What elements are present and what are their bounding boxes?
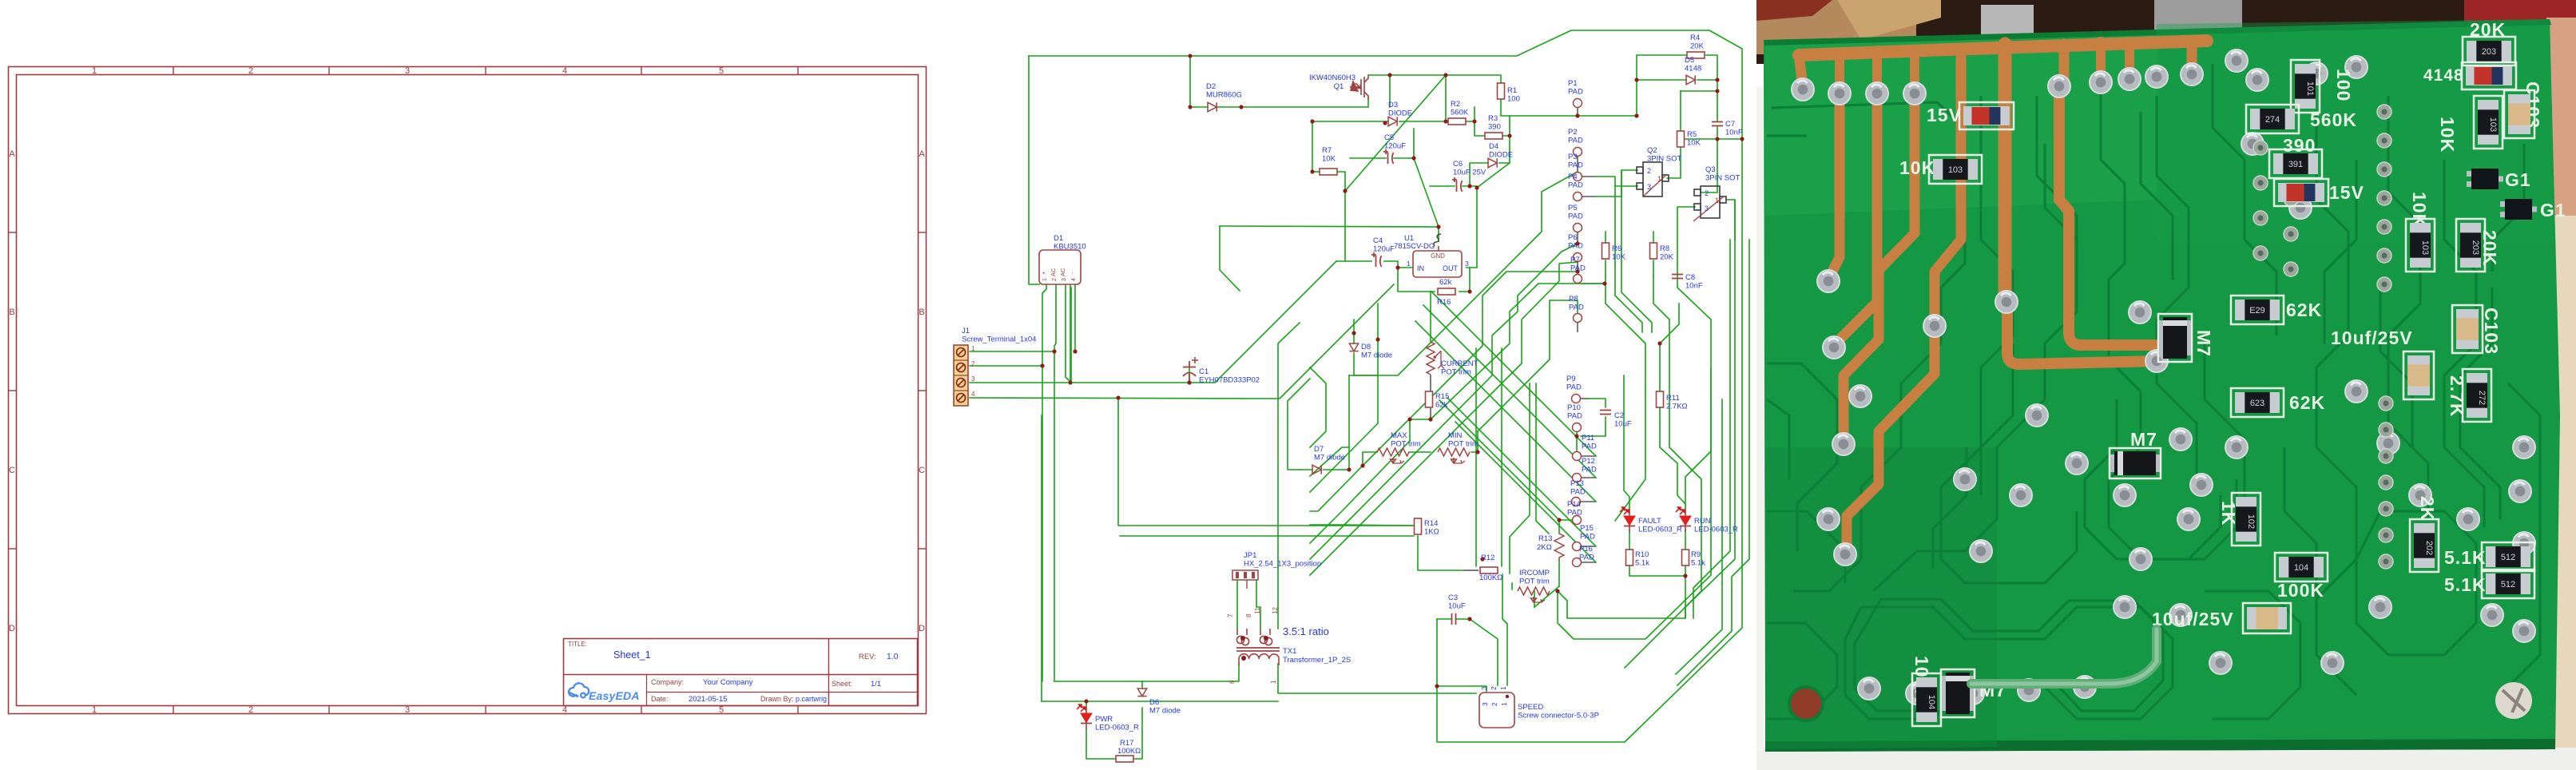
svg-text:D1: D1 [1054,234,1063,243]
wire TX1 sec left [1232,664,1239,681]
svg-text:J1: J1 [962,327,970,335]
pad P2 [1574,148,1582,157]
stub P11 [1581,455,1596,457]
svg-text:MAX: MAX [1391,431,1407,440]
photo background right skin [2546,18,2576,219]
resistor smd 2.7K [2463,369,2491,422]
wire ircomp to R9 R10 rail [1558,576,1685,618]
pad 15 [2225,50,2248,72]
svg-text:560K: 560K [2310,109,2357,130]
svg-text:D6: D6 [1149,698,1159,707]
via col a 3 [2377,162,2391,177]
resistor smd 10K b [2474,96,2503,149]
via col d 3 [2284,227,2298,241]
junction [1507,133,1511,137]
svg-text:P16: P16 [1579,545,1593,554]
transistor Q3 [1694,186,1726,218]
svg-text:4: 4 [1071,278,1077,281]
junction [1387,73,1391,77]
wire C5 right up [1394,129,1414,158]
svg-text:C3: C3 [1448,593,1458,602]
svg-text:SPEED: SPEED [1518,703,1543,712]
resistor R3 [1485,133,1502,139]
etched outline 19 [1981,343,2013,495]
junction [1480,557,1484,561]
svg-text:C: C [919,466,925,475]
svg-text:104: 104 [1927,695,1936,709]
svg-text:C4: C4 [1373,236,1383,245]
svg-text:2: 2 [1490,702,1498,706]
svg-text:PAD: PAD [1568,212,1583,221]
etched outline 27 [2324,160,2356,343]
schematic sheet frame [9,66,927,715]
svg-text:PAD: PAD [1580,533,1595,542]
wire R9 bottom [1685,566,1686,576]
junction [1310,119,1314,123]
svg-text:10uF: 10uF [1614,420,1632,429]
svg-text:623: 623 [2250,399,2264,408]
resistor smd 560K [2246,105,2299,133]
pad 51 [2114,596,2136,618]
etched outline 26 [2141,112,2173,280]
svg-text:4: 4 [971,391,975,398]
svg-text:R15: R15 [1435,392,1449,401]
wire C6 to D4 diagonal [1477,163,1510,188]
pad 23 [1962,682,1984,705]
transistor Q2 [1637,162,1669,196]
svg-text:15V: 15V [2329,182,2364,203]
copper stub 3 [1910,50,1919,89]
svg-text:7: 7 [1227,613,1234,617]
svg-text:C: C [9,466,15,475]
wire mid horizontal left end [1220,226,1240,291]
via col c 3 [2253,211,2268,225]
wire bottom horizontal [1042,701,1278,702]
svg-text:A: A [9,149,15,159]
etched outline 25 [2037,96,2077,272]
etched outline 16 [2508,383,2540,687]
svg-text:Q3: Q3 [1705,165,1716,174]
svg-text:M7 diode: M7 diode [1314,454,1345,462]
svg-text:PAD: PAD [1568,181,1583,190]
svg-text:Q1: Q1 [1334,82,1344,91]
capacitor smd C103 b [2452,305,2483,353]
svg-text:2.7K: 2.7K [2447,375,2467,418]
pad P4 [1574,192,1582,201]
svg-text:512: 512 [2501,580,2515,589]
resistor R15 [1426,391,1433,407]
svg-text:PAD: PAD [1568,242,1583,251]
junction [1443,73,1447,77]
svg-text:OUT: OUT [1443,264,1459,272]
wire filler vertical a [1536,383,1549,534]
capacitor C5 [1383,149,1394,164]
wire bundle a4 P8 loop [1478,300,1578,431]
junction [1555,589,1559,593]
svg-text:120uF: 120uF [1384,142,1406,151]
svg-text:512: 512 [2501,553,2515,562]
pad 20 [1834,543,1856,566]
junction [1557,518,1561,522]
etched outline 24 [2460,288,2500,519]
svg-text:391: 391 [2288,160,2303,169]
svg-text:Transformer_1P_2S: Transformer_1P_2S [1283,656,1351,665]
junction [1574,434,1578,438]
svg-text:100: 100 [2333,69,2354,101]
svg-text:3: 3 [1705,204,1709,212]
wire R16 to current pot [1430,292,1431,342]
svg-text:P13: P13 [1570,479,1584,488]
LED RUN [1676,507,1691,532]
resistor R13 [1554,534,1564,561]
svg-text:LED-0603_R: LED-0603_R [1095,724,1139,732]
resistor R4 [1687,52,1705,58]
svg-text:PAD: PAD [1579,554,1594,562]
wire D7 anode feed [1288,379,1310,470]
junction [1575,113,1579,117]
wire RUN to R9 [1685,530,1686,549]
wire R13 bottom [1558,561,1560,586]
junction [1352,331,1355,335]
pad 54 [2241,133,2264,155]
diode smd 4148 [2462,62,2516,89]
junction [1188,105,1192,109]
wire diagonal to P13 [1415,321,1596,502]
wire RUN feed [1685,369,1711,513]
etched outline 20 [2085,399,2221,559]
pad 50 [2321,652,2344,674]
photo background bottom strip [1756,748,2576,770]
wire to C4 left [1336,260,1371,262]
via col c 2 [2253,176,2268,190]
etched outline 21 [2205,335,2245,511]
pad 26 [2305,62,2328,85]
wire long vertical A [1042,366,1043,681]
pad 22 [1906,682,1928,705]
stub P16 [1581,562,1596,563]
svg-text:R13: R13 [1538,534,1552,543]
svg-text:CURRENT: CURRENT [1441,359,1479,368]
pad P5 [1574,224,1582,232]
svg-text:POT trim: POT trim [1448,440,1479,449]
etched outline 10 [2388,96,2428,519]
wire D1 side vertical [1070,288,1072,383]
svg-text:POT trim: POT trim [1391,440,1421,449]
svg-text:272: 272 [2477,391,2487,405]
resistor smd 20K [2463,37,2515,65]
via col a 6 [2377,248,2391,263]
svg-text:B: B [9,308,14,317]
diode D3 [1388,117,1397,125]
svg-text:1: 1 [1500,702,1508,706]
etched outline 22 [2284,447,2316,607]
diode D7 [1312,465,1321,474]
svg-text:6: 6 [1228,680,1236,684]
svg-text:AC: AC [1050,268,1057,276]
pad P13 [1572,498,1581,506]
junction [1052,349,1056,353]
svg-text:C103: C103 [2481,308,2502,355]
unconnected stub at R12 [1463,570,1479,571]
etched outline 15 [2356,511,2476,655]
etched outline 4 [1941,96,2077,583]
diode M7 c [1941,669,1975,717]
stub P8 [1577,323,1578,332]
svg-text:1: 1 [1715,196,1719,204]
wire D2 cathode to Q1 emitter [1218,97,1368,107]
wire to D3 anode [1312,121,1388,122]
potentiometer IRCOMP [1518,587,1550,602]
potentiometer MAX [1377,448,1409,463]
wire big outer loop net [1029,30,1742,742]
sheet frame outer border [9,67,927,714]
copper top bar left [1799,49,1971,55]
PCB photo recreation [1756,0,2576,770]
wire mid horizontal 283 [1220,226,1439,227]
svg-text:AC: AC [1059,268,1066,276]
stub R15 bottom [1430,408,1431,419]
svg-text:104: 104 [2294,563,2308,573]
junction [1443,119,1447,123]
copper long v3 [1844,94,1915,441]
wire right rail 5 [1677,240,1749,685]
wire PWR LED stub [1086,701,1087,708]
svg-text:R3: R3 [1488,114,1498,123]
resistor smd 62K b [2231,388,2284,417]
svg-text:P3: P3 [1568,153,1578,161]
wire horizontal to R14 bottom row [1120,535,1414,537]
PCB board [1764,19,2560,752]
wire filler vertical b [1510,383,1530,574]
copper staircase 2 [1847,335,1935,550]
svg-text:2: 2 [248,66,253,76]
wire Q1 bias drop [1389,75,1391,107]
wire D1 pin4 down [1074,284,1076,351]
svg-text:102: 102 [2246,514,2256,529]
svg-text:5.1K: 5.1K [2444,574,2487,595]
svg-text:10K: 10K [1899,157,1935,178]
wire R13 top to P14 [1559,520,1577,534]
svg-text:D2: D2 [1206,82,1216,91]
junction [1467,184,1471,188]
wire TX1 sec right long [1278,664,1476,693]
junction [1347,467,1351,471]
pad 12 [2118,68,2141,90]
via col c 1 [2253,141,2268,155]
etched outline 18 [1933,447,1967,569]
wire R7 left [1312,171,1320,173]
via col b 4 [2379,475,2393,490]
pad 9 [1817,508,1840,530]
svg-text:R1: R1 [1507,86,1517,95]
svg-text:1: 1 [92,66,97,76]
junction [1467,289,1471,293]
svg-text:62K: 62K [2289,392,2325,413]
junction [1187,380,1191,384]
svg-text:R9: R9 [1691,550,1701,559]
svg-text:C8: C8 [1685,273,1695,282]
wire D8 down [1353,353,1355,375]
via col d 2 [2284,192,2298,206]
capacitor C2 [1600,411,1611,415]
svg-text:P2: P2 [1568,128,1578,137]
diode D2 [1208,102,1217,111]
wire vertical C up [1070,256,1071,383]
wire bundle a1 [1349,172,1578,375]
copper stub 6 [2187,42,2197,73]
svg-text:203: 203 [2471,240,2480,255]
etched outline 12 [1767,623,1837,719]
diode M7 a [2158,314,2192,362]
svg-text:PAD: PAD [1568,137,1583,145]
capacitor smd C103 a [2504,90,2534,138]
svg-text:10K: 10K [1687,139,1701,148]
wire Q1 collector to R1 top [1368,75,1501,84]
etched outline 1 [1772,102,1965,591]
pad 45 [2513,532,2535,554]
wire C5 net diagonal [1414,158,1439,227]
wire to SPEED pin3 [1437,686,1486,693]
title block [564,639,918,706]
stub P2 [1577,157,1578,172]
wire C3 to SPEED pin2 [1470,619,1498,685]
svg-text:2: 2 [1647,167,1651,175]
resistor smd 390 [2269,149,2322,178]
svg-text:3PIN SOT: 3PIN SOT [1705,174,1740,183]
etched outline 3 [1767,399,1789,479]
svg-text:390: 390 [1488,123,1501,132]
resistor smd 62K a [2231,296,2284,324]
resistor R1 [1498,83,1505,99]
copper top bar right [1971,41,2207,49]
svg-text:274: 274 [2265,115,2280,125]
pad P15 [1573,542,1582,551]
wire J1 pin3 to C1 [970,382,1189,383]
svg-text:DIODE: DIODE [1388,109,1412,118]
resistor R2 [1448,118,1466,125]
svg-text:PAD: PAD [1567,412,1582,421]
wire P10 to P11 v [1576,432,1578,452]
svg-text:5: 5 [719,66,724,76]
junction [1310,169,1314,173]
screw head [2495,682,2532,719]
resistor smd 1K [2232,493,2260,546]
capacitor C4 [1371,252,1382,267]
svg-text:4148: 4148 [1685,65,1701,73]
rectifier D1 [1039,250,1081,284]
wire C1 stub [1189,367,1190,383]
svg-text:100KΩ: 100KΩ [1117,747,1141,756]
junction [1040,363,1044,367]
wire D1 pin2 down [1054,284,1056,351]
frame column ticks [173,67,174,75]
wire D6 anode stub [1141,681,1143,689]
wire R11 to RUN led [1660,423,1685,504]
svg-text:100KΩ: 100KΩ [1479,574,1502,582]
wire R10 bottom [1629,566,1685,576]
svg-text:2021-05-15: 2021-05-15 [689,695,728,704]
svg-text:+: + [1040,271,1047,275]
wire R11 top [1659,343,1661,391]
wire LED to R17 [1086,728,1116,759]
svg-text:E29: E29 [2249,306,2265,316]
svg-text:RUN: RUN [1694,517,1711,526]
pad 17 [1923,315,1946,337]
stub P9 [1581,398,1590,399]
svg-text:Sheet:: Sheet: [832,680,852,688]
svg-text:3: 3 [405,66,410,76]
resistor R11 [1657,391,1664,407]
potentiometer MIN [1438,448,1470,463]
via col b 6 [2379,528,2393,542]
wire TX1 p2 up [1277,608,1279,629]
svg-text:LED-0603_R: LED-0603_R [1694,526,1738,534]
pad P11 [1573,452,1582,461]
svg-text:390: 390 [2283,135,2316,156]
pad 38 [2129,548,2152,570]
wire R5 row to right rail [1685,138,1742,140]
regulator U1 [1413,251,1462,277]
wire right rail 6 [1676,399,1722,674]
connector SPEED [1479,693,1514,728]
pad 14 [2181,63,2203,85]
svg-text:POT trim: POT trim [1519,577,1550,586]
pad 44 [2513,436,2535,458]
wire horizontal to R14 top row [1310,525,1414,526]
resistor R6 [1602,243,1610,259]
svg-text:P11: P11 [1582,434,1594,443]
svg-text:1: 1 [1042,278,1048,281]
capacitor C8 [1672,275,1683,279]
wire long vertical B [1054,351,1055,681]
wire D3 net to R7 [1312,121,1313,172]
etched outline 13 [1845,607,2173,719]
resistor smd 5.1K b [2482,570,2534,598]
svg-text:4148: 4148 [2423,66,2464,85]
pad 37 [2225,436,2248,458]
svg-text:B: B [919,308,924,317]
wire FAULT to R10 [1629,530,1630,549]
wire R12 right feed [1501,348,1502,566]
svg-text:DIODE: DIODE [1489,151,1513,160]
pad 40 [2377,432,2399,454]
transistor smd G1 b [2500,199,2537,220]
svg-text:P9: P9 [1566,375,1576,383]
svg-text:Date:: Date: [651,695,669,703]
diode D4 [1488,158,1497,167]
wire R6 top [1605,232,1606,242]
pad 27 [2345,56,2368,78]
junction [1239,105,1243,109]
svg-text:2: 2 [1052,278,1058,281]
svg-text:TX1: TX1 [1283,647,1296,656]
svg-text:103: 103 [2488,117,2498,132]
svg-text:3: 3 [1647,183,1651,191]
svg-text:R2: R2 [1451,100,1460,109]
stub P4 [1581,196,1596,197]
pad 30 [2066,452,2088,474]
wire diagonal to P12 [1423,305,1596,478]
stub P15 [1581,546,1596,547]
wire R5 bottom to Q2 pin1 [1667,147,1681,178]
wire Q3 pin1 up [1734,200,1736,240]
svg-text:PAD: PAD [1568,161,1583,170]
copper stub 1 [1835,52,1844,89]
svg-text:1: 1 [1270,680,1277,684]
svg-text:8: 8 [1245,613,1252,617]
svg-text:1: 1 [92,705,97,715]
junction [1407,417,1411,421]
